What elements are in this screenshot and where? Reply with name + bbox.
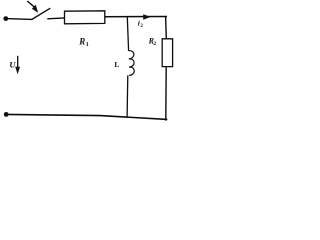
wire (bottom rail) [6,114,167,119]
node B (bottom-left terminal dot) [4,112,9,117]
wire (top-right corner down to R2) [165,16,168,38]
wire (top-left terminal to switch pivot) [6,18,32,21]
svg-text:1: 1 [86,42,89,48]
switch S blade [32,8,51,19]
inductor L (coil) [129,51,135,76]
current arrow i2 [137,14,151,19]
wire (switch to R1) [47,17,64,20]
svg-text:L: L [114,60,119,69]
voltage arrow (U direction) [15,56,20,74]
node A (top-left terminal dot) [3,16,8,21]
wire (R2 bottom to bottom-right corner) [165,67,167,121]
svg-text:2: 2 [140,24,143,29]
resistor R1 (box) [65,11,105,24]
resistor R2 (box) [162,39,172,67]
wire (inductor to bottom rail) [126,75,129,116]
wire (R1 to top-right corner) [105,16,167,18]
wire (junction to inductor) [127,17,128,51]
switch actuation arrow [27,1,38,13]
svg-text:R: R [78,36,85,46]
svg-text:2: 2 [153,41,156,47]
svg-text:U: U [9,59,16,69]
